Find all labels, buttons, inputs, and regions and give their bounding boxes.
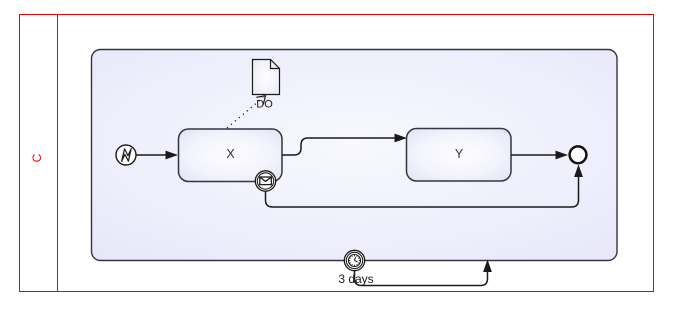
end event	[570, 146, 587, 163]
svg-text:C: C	[30, 153, 44, 162]
task Y	[407, 129, 512, 182]
boundary message event on X	[255, 171, 275, 191]
svg-text:X: X	[226, 147, 235, 161]
wire Y to end	[511, 151, 568, 160]
svg-text:Y: Y	[455, 147, 464, 161]
task X	[179, 129, 283, 182]
data object DO	[253, 60, 280, 95]
boundary timer event on subprocess	[344, 250, 364, 270]
wire timer to subprocess	[355, 260, 492, 286]
wire X to Y	[282, 134, 407, 155]
pool C	[20, 15, 654, 292]
association X to DO (dotted)	[227, 96, 266, 128]
subprocess container	[92, 50, 618, 261]
start event	[116, 145, 136, 165]
wire message event to end event	[266, 165, 583, 208]
wire start to X	[137, 151, 179, 160]
